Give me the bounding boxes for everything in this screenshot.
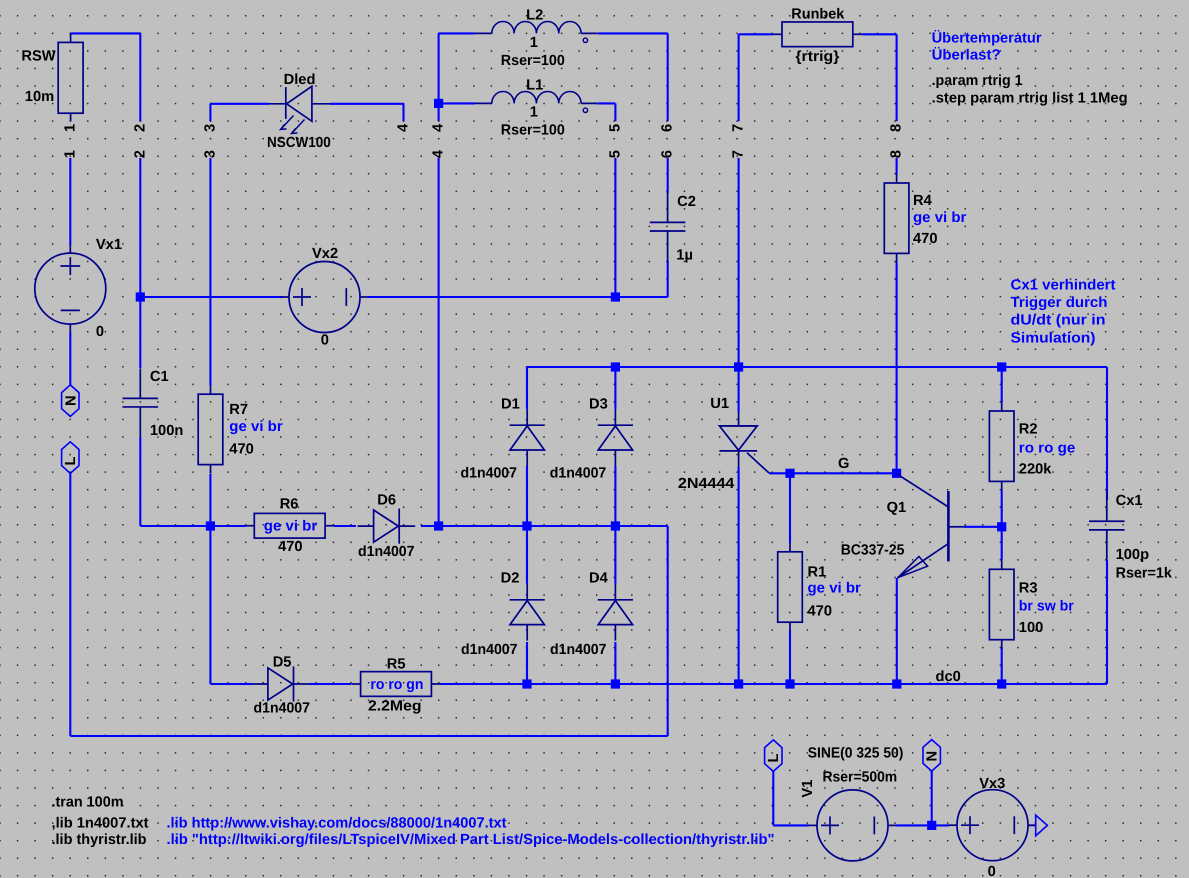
wire Runbek right: [862, 34, 897, 121]
svg-text:NSCW100: NSCW100: [267, 135, 331, 151]
label node dc0: [936, 669, 961, 685]
net label 3 upper at x=210.4: [202, 124, 218, 132]
wire L2 left: [439, 33, 475, 103]
net label 2 upper at x=140.3: [132, 124, 148, 132]
junction bus D3: [611, 362, 620, 371]
svg-text:8: 8: [889, 124, 905, 132]
svg-text:470: 470: [808, 604, 833, 620]
svg-text:1: 1: [62, 150, 78, 158]
resistor Runbek: [773, 22, 862, 47]
label R2 name: [1019, 422, 1038, 438]
svg-text:d1n4007: d1n4007: [550, 466, 607, 482]
junction R1 dc0: [785, 679, 794, 688]
svg-text:Übertemperatur: Übertemperatur: [932, 29, 1042, 46]
label D5 name: [273, 654, 292, 670]
comment Uebertemperatur: [932, 29, 1042, 46]
wire mid row bridge: [439, 525, 668, 527]
comment .lib vishay url: [167, 815, 507, 831]
svg-text:1: 1: [530, 35, 538, 51]
wire node G: [769, 472, 897, 474]
wire net 5 lower segment: [614, 158, 616, 297]
svg-text:R3: R3: [1019, 581, 1038, 597]
net label 6 lower at x=667.7: [660, 150, 676, 158]
capacitor C1: [123, 368, 159, 437]
wire net 7 top segment: [738, 34, 740, 121]
svg-text:R4: R4: [913, 193, 933, 209]
wire bus to Cx1: [1106, 367, 1108, 500]
svg-text:R6: R6: [280, 497, 299, 513]
diode D1: [510, 409, 545, 466]
wire R6 to D6: [334, 525, 356, 527]
thyristor U1: [719, 412, 769, 473]
label Q1 value BC337-25: [841, 543, 905, 559]
svg-text:0: 0: [321, 333, 329, 349]
port flag N upper letter: [63, 395, 79, 406]
inductor L2 phase dot: [583, 38, 587, 42]
junction G R1: [785, 469, 794, 478]
label Cx1 name: [1116, 493, 1143, 509]
svg-text:C2: C2: [677, 194, 696, 210]
svg-text:ge vi br: ge vi br: [808, 581, 862, 597]
label R3 name: [1019, 581, 1038, 597]
svg-text:D6: D6: [377, 493, 396, 509]
resistor R1: [778, 543, 803, 631]
label R6 colour code: [264, 519, 318, 535]
wire U1 cathode pin: [738, 467, 740, 684]
label L2 Rser: [501, 53, 565, 69]
svg-text:100p: 100p: [1116, 547, 1150, 563]
label node G: [838, 456, 849, 472]
label RSW name: [21, 48, 55, 64]
port flag N upper: [62, 385, 79, 417]
svg-text:ge vi br: ge vi br: [264, 519, 318, 535]
transistor Q1: [896, 473, 964, 578]
svg-text:1µ: 1µ: [676, 248, 693, 264]
wire D4 top pin: [614, 526, 616, 584]
svg-text:Rser=1k: Rser=1k: [1116, 566, 1173, 582]
svg-text:Rser=100: Rser=100: [501, 123, 565, 139]
svg-text:.lib http://www.vishay.com/doc: .lib http://www.vishay.com/docs/88000/1n…: [167, 815, 507, 831]
junction U1 dc0: [734, 679, 743, 688]
junction G R4 Q1: [892, 469, 901, 478]
svg-text:Rser=100: Rser=100: [501, 53, 565, 69]
directive .lib thyristr: [52, 832, 147, 848]
wire L flag to V1: [773, 771, 809, 825]
port flag L upper: [62, 442, 79, 474]
net label 3 lower at x=210.4: [202, 150, 218, 158]
resistor RSW: [58, 33, 83, 121]
svg-text:D2: D2: [501, 571, 520, 587]
svg-text:R5: R5: [387, 656, 406, 672]
net label 7 lower at x=738.6: [731, 150, 747, 158]
port flag N lower letter: [925, 751, 941, 762]
label D2 value d1n4007: [461, 642, 518, 658]
label D6 value d1n4007: [358, 544, 415, 560]
label Q1 name: [887, 500, 907, 516]
net label 5 upper at x=615.4: [607, 124, 623, 132]
label R7 value 470: [229, 441, 254, 457]
label D1 name: [501, 396, 520, 412]
directive .tran: [52, 794, 124, 810]
port flag N lower: [923, 740, 940, 772]
svg-text:BC337-25: BC337-25: [841, 543, 905, 559]
wire Runbek left: [739, 33, 773, 35]
svg-text:Cx1: Cx1: [1116, 493, 1143, 509]
comment Cx1 verhindert line2: [1011, 295, 1108, 311]
svg-text:100: 100: [1019, 620, 1044, 636]
svg-text:Rser=500m: Rser=500m: [823, 770, 898, 786]
wire net 6 lower segment to C2: [667, 158, 669, 193]
port flag L upper letter: [63, 457, 79, 466]
wire RSW top to net 2: [71, 33, 141, 121]
junction D3 D4 mid: [611, 521, 620, 530]
comment Cx1 verhindert line3: [1011, 313, 1106, 329]
wire net 8 lower segment: [896, 158, 898, 174]
label R4 name: [913, 193, 933, 209]
svg-text:470: 470: [278, 539, 303, 555]
svg-text:U1: U1: [710, 396, 729, 412]
resistor R2: [989, 402, 1014, 490]
label L2 name: [526, 8, 543, 24]
svg-text:2.2Meg: 2.2Meg: [368, 698, 422, 714]
voltage source Vx2: [281, 262, 369, 333]
svg-text:RSW: RSW: [21, 48, 55, 64]
svg-text:Runbek: Runbek: [791, 7, 845, 23]
label Vx3 name: [979, 776, 1005, 792]
svg-text:.lib thyristr.lib: .lib thyristr.lib: [52, 832, 147, 848]
wire Dled anode to net 4 stub: [330, 104, 404, 121]
wire L1 left: [439, 102, 475, 104]
label L1 value 1: [530, 105, 538, 121]
resistor R3: [989, 560, 1014, 648]
wire R3 top pin: [1001, 527, 1003, 561]
svg-text:D4: D4: [589, 571, 609, 587]
wire R2 top pin: [1001, 367, 1003, 402]
svg-text:d1n4007: d1n4007: [358, 544, 415, 560]
svg-text:ge vi br: ge vi br: [229, 419, 283, 435]
label C2 name: [677, 194, 696, 210]
wire Vx1 minus to N flag: [69, 333, 71, 385]
wire net 4 lower segment: [438, 158, 440, 526]
junction net4 D6 bridge: [434, 521, 443, 530]
diode D5: [252, 666, 310, 701]
svg-text:Simulation): Simulation): [1011, 330, 1096, 346]
svg-text:1: 1: [62, 124, 78, 132]
net label 7 upper at x=738.6: [731, 124, 747, 132]
svg-text:Vx2: Vx2: [312, 246, 338, 262]
diode D4: [598, 584, 633, 641]
wire L2 right to net 6: [598, 33, 668, 121]
directive .param: [932, 73, 1023, 89]
svg-text:470: 470: [913, 231, 938, 247]
junction bus U1: [734, 362, 743, 371]
label R7 colour code: [229, 419, 283, 435]
directive lib 1n4007: [52, 815, 149, 831]
wire Q1 emitter down: [896, 578, 898, 684]
label R1 name: [808, 565, 827, 581]
inductor L1 phase dot: [583, 108, 587, 112]
resistor R5: [352, 672, 441, 697]
svg-text:5: 5: [607, 124, 623, 132]
wire R7 bottom to mid row: [209, 474, 211, 526]
label R7 name: [229, 402, 248, 418]
comment Ueberlast: [932, 47, 1001, 64]
wire Vx2 left row: [140, 296, 283, 298]
resistor R7: [198, 385, 223, 473]
svg-text:,lib 1n4007.txt: ,lib 1n4007.txt: [52, 815, 149, 831]
wire D2 bottom pin: [526, 642, 528, 684]
junction Q1 base divider: [997, 522, 1006, 531]
svg-text:2: 2: [132, 124, 148, 132]
label Vx1 name: [96, 237, 122, 253]
svg-text:L2: L2: [526, 8, 543, 24]
svg-text:470: 470: [229, 441, 254, 457]
svg-text:G: G: [838, 456, 849, 472]
label Cx1 Rser: [1116, 566, 1173, 582]
label D2 name: [501, 571, 520, 587]
svg-text:3: 3: [202, 150, 218, 158]
comment Cx1 verhindert line1: [1011, 277, 1116, 293]
wire R1 bottom pin: [789, 631, 791, 684]
svg-text:7: 7: [731, 150, 747, 158]
svg-text:d1n4007: d1n4007: [254, 701, 311, 717]
svg-text:Cx1 verhindert: Cx1 verhindert: [1011, 277, 1116, 293]
wire R2 bottom pin: [1001, 490, 1003, 527]
label Vx3 value 0: [988, 864, 996, 878]
svg-text:2N4444: 2N4444: [678, 476, 735, 492]
svg-text:0: 0: [988, 864, 996, 878]
svg-text:R7: R7: [229, 402, 248, 418]
label D6 name: [377, 493, 396, 509]
capacitor Cx1: [1089, 491, 1125, 560]
capacitor C2: [650, 192, 686, 261]
svg-text:220k: 220k: [1019, 462, 1053, 478]
wire Vx2 right row: [368, 296, 615, 298]
wire D3 bottom pin: [614, 466, 616, 526]
svg-text:V1: V1: [800, 780, 816, 798]
label R5 colour code: [370, 677, 423, 693]
label R2 colour code: [1019, 441, 1075, 457]
label D5 value d1n4007: [254, 701, 311, 717]
junction C1 R7 R6 D5: [206, 521, 215, 530]
label RSW value 10m: [25, 89, 54, 105]
wire Vx3 to out arrow: [1028, 824, 1036, 826]
diode D6: [358, 509, 416, 544]
svg-text:10m: 10m: [25, 89, 54, 105]
junction D1 D2 mid: [522, 521, 531, 530]
svg-text:1: 1: [530, 105, 538, 121]
svg-text:0: 0: [96, 324, 104, 340]
wire V1 to junction: [897, 824, 932, 826]
junction D4 dc0: [611, 679, 620, 688]
label R3 value 100: [1019, 620, 1044, 636]
label V1 name rotated: [800, 780, 816, 798]
junction net5 Vx2 C2: [611, 292, 620, 301]
label Cx1 value 100p: [1116, 547, 1150, 563]
directive .step: [932, 91, 1128, 107]
port flag L lower letter: [766, 754, 782, 763]
wire bridge right down: [667, 526, 669, 736]
svg-text:L: L: [766, 754, 782, 763]
label R4 value 470: [913, 231, 938, 247]
svg-text:ro ro gn: ro ro gn: [370, 677, 423, 693]
svg-text:D1: D1: [501, 396, 520, 412]
resistor R6: [245, 513, 334, 538]
label V1 SINE: [808, 746, 904, 762]
svg-text:ge vi br: ge vi br: [913, 210, 967, 226]
wire net 1 lower segment: [69, 158, 71, 245]
label D4 name: [589, 571, 609, 587]
label Dled value NSCW100: [267, 135, 331, 151]
svg-text:Q1: Q1: [887, 500, 907, 516]
svg-text:Trigger durch: Trigger durch: [1011, 295, 1108, 311]
svg-text:4: 4: [431, 123, 447, 132]
wire C2 bottom to Vx2 row: [615, 261, 667, 298]
port flag L lower: [765, 740, 782, 772]
svg-text:N: N: [925, 751, 941, 762]
junction V1 Vx3 N: [927, 821, 936, 830]
svg-text:{rtrig}: {rtrig}: [795, 49, 839, 65]
net label 4 upper at x=403.5: [396, 123, 412, 132]
svg-text:.param rtrig 1: .param rtrig 1: [932, 73, 1023, 89]
svg-text:5: 5: [607, 150, 623, 158]
svg-text:D3: D3: [589, 396, 608, 412]
net label 8 upper at x=896.6: [889, 124, 905, 132]
svg-text:d1n4007: d1n4007: [461, 466, 518, 482]
label V1 Rser: [823, 770, 898, 786]
svg-text:br sw br: br sw br: [1019, 599, 1074, 615]
inductor L2: [475, 21, 598, 33]
label Vx1 value 0: [96, 324, 104, 340]
label R3 colour code: [1019, 599, 1074, 615]
net label 1 lower at x=70.3: [62, 150, 78, 158]
label C2 value 1u: [676, 248, 693, 264]
voltage source V1: [809, 790, 897, 861]
label U1 name: [710, 396, 729, 412]
LED Dled: [269, 86, 330, 133]
comment .lib ltwiki url: [167, 832, 775, 848]
net label 8 lower at x=896.6: [889, 150, 905, 158]
wire net 4 top segment: [438, 103, 440, 121]
label Vx2 name: [312, 246, 338, 262]
voltage source Vx3: [949, 790, 1037, 861]
wire bottom return: [70, 473, 667, 736]
svg-text:dc0: dc0: [936, 669, 961, 685]
wire D2 top pin: [526, 526, 528, 584]
net label 5 lower at x=615.4: [607, 150, 623, 158]
wire N flag down: [931, 771, 933, 825]
svg-text:L1: L1: [526, 78, 543, 94]
label D1 value d1n4007: [461, 466, 518, 482]
svg-text:dU/dt (nur in: dU/dt (nur in: [1011, 313, 1106, 329]
label Runbek name: [791, 7, 845, 23]
label R5 value 2.2Meg: [368, 698, 422, 714]
svg-text:D5: D5: [273, 654, 292, 670]
svg-text:4: 4: [396, 123, 412, 132]
label Runbek value rtrig: [795, 49, 839, 65]
junction L1 L2 net4: [434, 99, 443, 108]
inductor L1: [475, 91, 598, 103]
label R4 colour code: [913, 210, 967, 226]
label D4 value d1n4007: [550, 642, 607, 658]
svg-text:.step param rtrig list 1 1Meg: .step param rtrig list 1 1Meg: [932, 91, 1128, 107]
svg-text:SINE(0 325 50): SINE(0 325 50): [808, 746, 904, 762]
svg-text:C1: C1: [150, 369, 169, 385]
label R1 value 470: [808, 604, 833, 620]
wire mid row left: [210, 525, 245, 527]
label L1 name: [526, 78, 543, 94]
wire R3 bottom pin: [1001, 647, 1003, 684]
label D3 value d1n4007: [550, 466, 607, 482]
wire U1 anode pin: [738, 367, 740, 412]
wire D1 bottom pin: [526, 466, 528, 526]
svg-text:.tran 100m: .tran 100m: [52, 794, 124, 810]
wire dc0 bus: [527, 683, 1107, 685]
wire anode bus: [527, 366, 1107, 368]
svg-text:8: 8: [889, 150, 905, 158]
svg-text:100n: 100n: [150, 423, 184, 439]
label R6 value 470: [278, 539, 303, 555]
label R1 colour code: [808, 581, 862, 597]
wire R5 to dc0 bus: [440, 683, 527, 685]
net label 2 lower at x=140.3: [132, 150, 148, 158]
wire net 3 lower segment: [209, 158, 211, 385]
svg-text:Vx1: Vx1: [96, 237, 122, 253]
label C1 value 100n: [150, 423, 184, 439]
label C1 name: [150, 369, 169, 385]
junction R3 dc0: [997, 679, 1006, 688]
junction net2 Vx2 C1: [136, 292, 145, 301]
svg-text:R1: R1: [808, 565, 827, 581]
diode D3: [598, 409, 633, 466]
svg-text:Überlast?: Überlast?: [932, 47, 1001, 64]
label D3 name: [589, 396, 608, 412]
svg-text:d1n4007: d1n4007: [550, 642, 607, 658]
svg-text:3: 3: [202, 124, 218, 132]
svg-text:R2: R2: [1019, 422, 1038, 438]
label Vx2 value 0: [321, 333, 329, 349]
label L1 Rser: [501, 123, 565, 139]
label L2 value 1: [530, 35, 538, 51]
wire mid row to D5 row: [210, 526, 251, 684]
svg-text:4: 4: [431, 149, 447, 158]
voltage source Vx1: [35, 245, 106, 333]
wire D5 left: [250, 683, 253, 685]
wire R4 bottom to node G: [896, 262, 898, 473]
svg-text:ro ro ge: ro ro ge: [1019, 441, 1075, 457]
wire net 2 lower segment: [139, 158, 141, 368]
label R6 name: [280, 497, 299, 513]
comment Cx1 verhindert line4: [1011, 330, 1096, 346]
wire R1 top pin: [789, 473, 791, 543]
svg-text:Vx3: Vx3: [979, 776, 1005, 792]
wire D5 to R5: [310, 683, 352, 685]
wire D1 top pin: [526, 367, 528, 409]
wire D6 to junction: [421, 525, 439, 527]
junction bus R2: [997, 362, 1006, 371]
svg-text:6: 6: [660, 150, 676, 158]
diode D2: [510, 584, 545, 641]
wire L1 right to net 5: [598, 103, 615, 121]
wire Cx1 bottom to dc0: [1106, 560, 1108, 684]
label Dled name: [284, 72, 316, 88]
wire C1 bottom to mid row: [140, 437, 210, 526]
wire junction to Vx3: [932, 824, 949, 826]
label R2 value 220k: [1019, 462, 1053, 478]
junction D2 dc0: [522, 679, 531, 688]
svg-text:d1n4007: d1n4007: [461, 642, 518, 658]
svg-text:.lib "http://ltwiki.org/files/: .lib "http://ltwiki.org/files/LTspiceIV/…: [167, 832, 775, 848]
